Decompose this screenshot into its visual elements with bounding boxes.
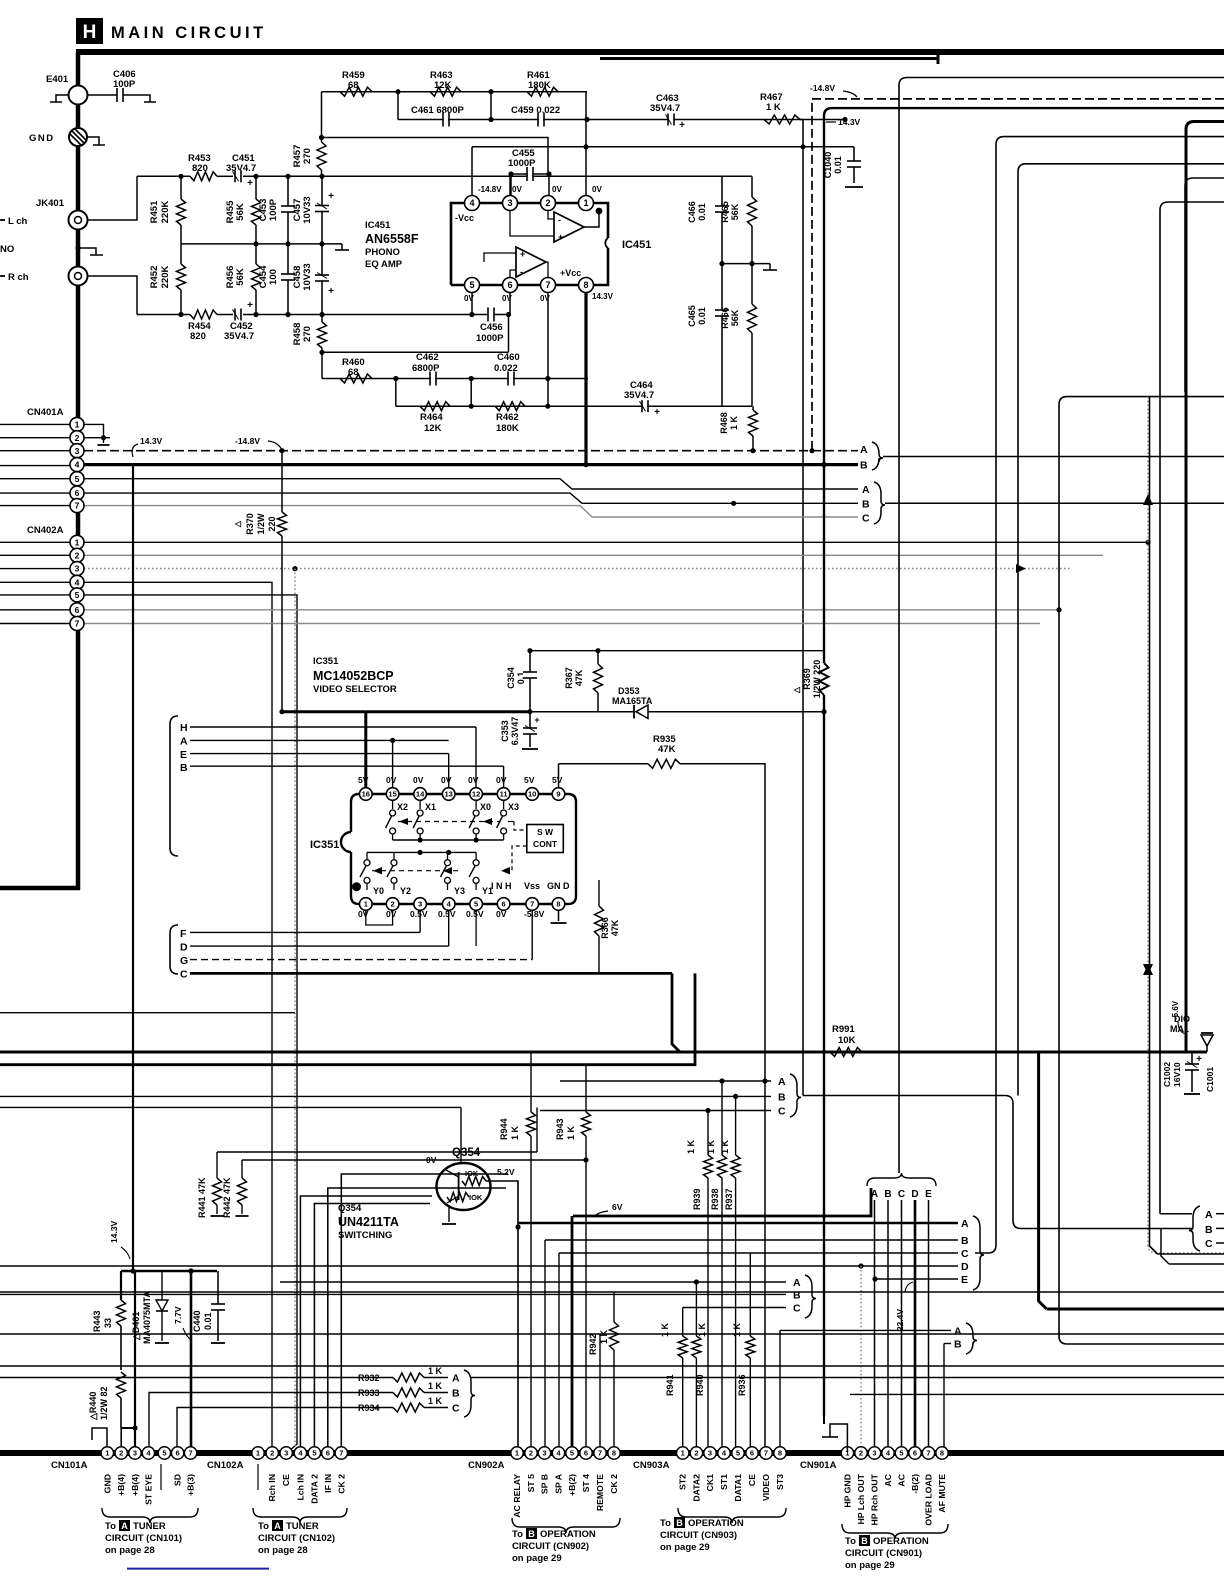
svg-text:0V: 0V: [464, 294, 474, 303]
svg-text:1 K: 1 K: [510, 1125, 520, 1140]
svg-text:1: 1: [105, 1449, 109, 1458]
pin CN102A-2: [266, 1447, 278, 1459]
wire pairB: [944, 1343, 951, 1345]
pin CN402A-5: [70, 588, 84, 602]
pin IC451-6: [509, 285, 511, 315]
pin CN901A-1: [841, 1447, 853, 1459]
svg-text:0V: 0V: [386, 775, 397, 785]
svg-text:7: 7: [545, 280, 550, 290]
wire brace apex up: [898, 1164, 900, 1173]
svg-text:7: 7: [764, 1449, 768, 1458]
pin CN903A-3: [704, 1447, 716, 1459]
svg-text:on page 28: on page 28: [105, 1545, 155, 1556]
wire SW CONT dashed in: [508, 821, 514, 823]
svg-text:R936: R936: [737, 1374, 747, 1396]
wire y1095 corner: [803, 1096, 1192, 1229]
pin CN901A-5: [895, 1447, 907, 1459]
svg-text:NO: NO: [0, 244, 14, 255]
pin CN903A-6: [746, 1447, 758, 1459]
pin IC451-3: [509, 174, 511, 203]
wire feedback row 4: [396, 405, 752, 407]
svg-text:1: 1: [515, 1449, 519, 1458]
jack JK401 L ch: [69, 211, 88, 230]
wire E line: [190, 753, 449, 755]
svg-text:10V33: 10V33: [302, 196, 313, 223]
svg-text:6: 6: [750, 1449, 754, 1458]
wire left trunk: [76, 52, 81, 890]
svg-text:3: 3: [507, 198, 512, 208]
svg-text:6: 6: [75, 488, 80, 498]
svg-text:C456: C456: [480, 322, 503, 333]
svg-text:14.3V: 14.3V: [109, 1220, 119, 1243]
wire CN402A pin1 bus: [84, 541, 1148, 543]
pin CN902A-6: [580, 1447, 592, 1459]
pin CN402A-3: [70, 562, 84, 576]
wire R441 rail: [217, 1151, 537, 1153]
arrow on x1148 upper: [1143, 494, 1153, 505]
wire feedback row 1: [322, 91, 588, 93]
wire Q354 collector line: [0, 1106, 461, 1108]
wire pin1 pin2 bottom tie: [366, 910, 393, 925]
svg-text:0V: 0V: [540, 294, 550, 303]
wire top border segment: [600, 57, 938, 60]
svg-text:R944: R944: [499, 1118, 509, 1140]
svg-text:DATA2: DATA2: [691, 1474, 701, 1502]
pin CN402A-6: [70, 603, 84, 617]
wire trio2 B: [0, 1293, 786, 1295]
svg-text:+: +: [558, 232, 563, 242]
wire 5V top rail: [530, 650, 824, 652]
terminal GND: [69, 128, 87, 146]
pin CN102A-7: [335, 1447, 347, 1459]
svg-text:D353: D353: [618, 686, 640, 696]
pin CN901A-3: [868, 1447, 880, 1459]
wire L row: [137, 175, 190, 177]
svg-text:IC451: IC451: [622, 239, 651, 251]
wire mid row: [181, 243, 342, 245]
svg-text:8: 8: [612, 1449, 616, 1458]
svg-text:A: A: [954, 1326, 962, 1338]
pin CN401A-2: [84, 437, 110, 439]
wire CN401A pin6 bus: [84, 493, 858, 503]
svg-text:10: 10: [528, 790, 536, 799]
wire C456 to row352: [508, 315, 510, 353]
svg-text:C: C: [898, 1189, 905, 1200]
svg-text:0V: 0V: [502, 294, 512, 303]
svg-text:JK401: JK401: [36, 198, 65, 209]
brace ABCDE up: [867, 1173, 936, 1186]
svg-text:7: 7: [598, 1449, 602, 1458]
pin IC351-5: [470, 898, 483, 911]
pin IC451-2: [541, 196, 556, 211]
svg-text:A: A: [862, 484, 870, 496]
svg-text:1: 1: [256, 1449, 260, 1458]
bracket ABC mid: [874, 482, 885, 524]
svg-text:on page 29: on page 29: [845, 1560, 895, 1571]
wire 14.3V rail right: [824, 108, 1224, 663]
svg-text:R369: R369: [802, 668, 812, 690]
pin CN101A-2: [115, 1447, 127, 1459]
svg-text:220: 220: [267, 516, 277, 531]
svg-text:0.01: 0.01: [697, 203, 707, 221]
pin CN902A-2: [525, 1447, 537, 1459]
svg-text:6V: 6V: [612, 1202, 623, 1212]
svg-text:R933: R933: [358, 1388, 380, 1398]
svg-text:PHONO: PHONO: [365, 247, 400, 258]
svg-text:D: D: [911, 1189, 918, 1200]
svg-text:0V: 0V: [441, 775, 452, 785]
svg-text:+: +: [679, 120, 685, 131]
svg-text:3: 3: [418, 900, 422, 909]
box SW CONT: [527, 825, 564, 853]
wire R ch to bottom row: [88, 276, 138, 315]
svg-text:G: G: [180, 955, 188, 967]
pin CN902A-7: [594, 1447, 606, 1459]
wire opamp A inputs: [510, 211, 554, 236]
brace CN102A: [253, 1508, 347, 1523]
svg-text:X3: X3: [508, 802, 519, 812]
switch contact: [392, 800, 394, 809]
svg-text:IOK: IOK: [469, 1193, 483, 1202]
svg-text:180K: 180K: [496, 423, 519, 434]
pin IC351-11: [497, 788, 510, 801]
svg-text:A: A: [778, 1076, 786, 1088]
svg-text:OPERATION: OPERATION: [873, 1536, 929, 1547]
wire IC351 pin8 ground: [558, 910, 560, 921]
wire opamp A output: [584, 213, 599, 227]
svg-text:C353: C353: [500, 720, 510, 742]
wire stack A thick: [518, 1222, 958, 1225]
svg-text:8: 8: [556, 900, 560, 909]
svg-text:DATA 2: DATA 2: [309, 1474, 319, 1504]
svg-text:GND: GND: [102, 1474, 112, 1493]
wire CN901A pin1 hook: [830, 1424, 847, 1452]
pin IC351-9: [552, 788, 565, 801]
pin CN903A-1: [677, 1447, 689, 1459]
svg-text:A: A: [180, 736, 188, 748]
svg-text:1: 1: [75, 419, 80, 429]
svg-text:C: C: [793, 1303, 801, 1315]
bracket ABC 781: [790, 1074, 801, 1117]
svg-text:14.3V: 14.3V: [838, 117, 861, 127]
label CN102A pin1 bar: [257, 1464, 259, 1490]
svg-text:C461 6800P: C461 6800P: [411, 105, 464, 116]
svg-text:R938: R938: [710, 1188, 720, 1210]
wire pin8 14.3V thick: [584, 285, 587, 466]
wire F line: [190, 931, 420, 933]
pin CN902A-1: [511, 1447, 523, 1459]
svg-text:R466: R466: [720, 307, 730, 329]
wire R934 drop: [177, 1408, 330, 1453]
label CN101A pin5 bar: [160, 1464, 162, 1490]
wire corner x1149: [1150, 397, 1158, 1254]
wire pairA: [780, 1329, 951, 1331]
pin IC351-8: [552, 898, 565, 911]
node PHONO junction: [75, 245, 80, 250]
pin IC451-7: [547, 285, 549, 406]
svg-text:C460: C460: [497, 352, 520, 363]
svg-text:R941: R941: [665, 1374, 675, 1396]
svg-text:4: 4: [75, 577, 80, 587]
svg-text:B: B: [860, 460, 868, 472]
svg-text:To: To: [660, 1518, 671, 1529]
wire 14.3V thick bus: [84, 463, 858, 466]
switch contact lower: [393, 852, 395, 859]
wire rail y1366: [0, 1365, 1224, 1367]
pin CN902A-4: [552, 1447, 564, 1459]
svg-text:CK1: CK1: [705, 1474, 715, 1492]
svg-text:7.7V: 7.7V: [173, 1306, 183, 1324]
svg-text:C: C: [180, 969, 188, 981]
svg-text:R462: R462: [496, 412, 519, 423]
svg-text:R464: R464: [420, 412, 443, 423]
svg-text:B: B: [528, 1529, 535, 1539]
wire CN402A stubs: [0, 541, 70, 543]
svg-text:0V: 0V: [496, 909, 507, 919]
bracket pair: [966, 1323, 977, 1354]
svg-text:+B(3): +B(3): [186, 1474, 196, 1496]
svg-text:IC351: IC351: [313, 656, 339, 667]
svg-text:1/2W 82: 1/2W 82: [99, 1386, 109, 1420]
svg-text:1 K: 1 K: [428, 1381, 443, 1391]
wire corner x1185: [1185, 178, 1224, 392]
pin IC351-12: [470, 788, 483, 801]
wire D line: [190, 945, 449, 947]
wire SW CONT dashed out: [503, 846, 527, 871]
svg-text:H: H: [180, 722, 188, 734]
svg-text:R939: R939: [692, 1188, 702, 1210]
pin CN402A-4: [70, 575, 84, 589]
pin CN101A-7: [184, 1447, 196, 1459]
svg-text:2: 2: [391, 900, 395, 909]
svg-text:E: E: [180, 749, 187, 761]
svg-text:220K: 220K: [160, 266, 171, 289]
wire A5 out: [1216, 1213, 1224, 1215]
svg-text:R942: R942: [588, 1333, 598, 1355]
svg-text:14.3V: 14.3V: [592, 292, 614, 301]
svg-text:ST2: ST2: [678, 1474, 688, 1490]
pin IC351-13: [442, 788, 455, 801]
svg-text:C354: C354: [506, 667, 516, 689]
svg-text:UN4211TA: UN4211TA: [338, 1215, 399, 1229]
svg-text:10V33: 10V33: [302, 263, 313, 290]
wire ABCDE drops: [874, 1200, 876, 1452]
svg-text:ST 4: ST 4: [581, 1474, 591, 1493]
wire B line: [190, 765, 504, 767]
svg-text:7: 7: [339, 1449, 343, 1458]
bracket trio3: [464, 1370, 475, 1417]
svg-text:B: B: [961, 1235, 969, 1247]
svg-text:1: 1: [583, 198, 588, 208]
wire pairB vertical: [943, 1344, 945, 1453]
svg-text:3: 3: [872, 1449, 876, 1458]
wire C5 out: [1216, 1242, 1224, 1244]
svg-text:0V: 0V: [358, 909, 369, 919]
rule bottom blue: [127, 1568, 269, 1570]
svg-text:14: 14: [416, 790, 425, 799]
wire HP Lch gray: [860, 1266, 862, 1452]
svg-text:0V: 0V: [552, 185, 562, 194]
svg-text:GN D: GN D: [547, 881, 570, 891]
svg-text:5V: 5V: [358, 775, 369, 785]
bracket FDGC: [170, 925, 178, 974]
svg-text:TUNER: TUNER: [133, 1521, 166, 1532]
wire CN402A pin3 dotted bus: [84, 568, 1072, 570]
pin CN902A-8: [608, 1447, 620, 1459]
pin CN101A-3: [129, 1447, 141, 1459]
svg-text:SP A: SP A: [554, 1473, 564, 1494]
svg-text:HP Rch OUT: HP Rch OUT: [870, 1473, 880, 1525]
svg-text:8: 8: [583, 280, 588, 290]
svg-text:35V4.7: 35V4.7: [224, 331, 254, 342]
svg-text:6: 6: [507, 280, 512, 290]
svg-text:56K: 56K: [235, 203, 246, 221]
svg-text:1 K: 1 K: [766, 102, 781, 113]
svg-text:4: 4: [469, 198, 474, 208]
svg-text:2: 2: [75, 550, 80, 560]
svg-text:C: C: [961, 1248, 969, 1260]
wire CN402A pin5 bus: [84, 595, 297, 1452]
switch contact lower: [366, 852, 368, 859]
wire opamp B input +: [484, 253, 516, 262]
svg-text:B: B: [1205, 1224, 1213, 1236]
pin CN902A-5: [566, 1447, 578, 1459]
bracket AB top: [872, 442, 883, 470]
wire thick bus A path: [672, 973, 680, 1052]
svg-text:-B(2): -B(2): [910, 1474, 920, 1494]
svg-text:CN101A: CN101A: [51, 1460, 88, 1471]
wire thick bus B path: [0, 1063, 687, 1066]
svg-text:1 K: 1 K: [428, 1396, 443, 1406]
wire stack E: [875, 1278, 958, 1280]
wire second row y137: [322, 138, 549, 175]
svg-text:5: 5: [469, 280, 474, 290]
wire GND hook: [87, 137, 99, 145]
wire trio A line: [560, 1080, 771, 1082]
svg-text:R943: R943: [555, 1118, 565, 1140]
svg-text:ST1: ST1: [719, 1474, 729, 1490]
svg-text:13: 13: [445, 790, 453, 799]
svg-text:6: 6: [584, 1449, 588, 1458]
svg-text:CN901A: CN901A: [800, 1460, 837, 1471]
pin CN903A-2: [690, 1447, 702, 1459]
svg-text:7: 7: [926, 1449, 930, 1458]
pin IC451-8: [579, 278, 594, 293]
svg-text:VIDEO SELECTOR: VIDEO SELECTOR: [313, 684, 397, 695]
wire R440 to pin2: [121, 1427, 135, 1429]
svg-text:12K: 12K: [424, 423, 442, 434]
svg-text:1000P: 1000P: [476, 333, 504, 344]
svg-text:47K: 47K: [610, 919, 620, 936]
svg-text:CN401A: CN401A: [27, 407, 64, 418]
svg-text:E401: E401: [46, 74, 69, 85]
op-amp IC451 B triangle: [516, 247, 546, 277]
svg-text:CN902A: CN902A: [468, 1460, 505, 1471]
svg-text:5: 5: [312, 1449, 316, 1458]
pin CN901A-2: [855, 1447, 867, 1459]
wire y396 corner x1059: [1059, 397, 1224, 1344]
svg-text:0V: 0V: [386, 909, 397, 919]
svg-text:-: -: [558, 215, 561, 225]
wire decouple mid bar: [722, 263, 770, 265]
wire CN102A pin7 riser: [341, 1174, 508, 1452]
svg-text:7: 7: [75, 501, 80, 511]
wire R467 to rail: [800, 119, 803, 121]
wire PHONO hook: [78, 248, 96, 255]
svg-text:0V: 0V: [496, 775, 507, 785]
switch contact: [419, 800, 421, 809]
svg-text:1/2W: 1/2W: [256, 513, 266, 535]
svg-text:CE: CE: [747, 1474, 757, 1486]
svg-text:IC351: IC351: [310, 839, 339, 851]
svg-text:B: B: [452, 1388, 460, 1400]
wire R933 drop: [149, 1393, 300, 1453]
wire CN401A pin7 bus: [84, 506, 858, 517]
svg-text:R442 47K: R442 47K: [222, 1177, 232, 1218]
svg-text:C462: C462: [416, 352, 439, 363]
op-amp IC451 body: [451, 203, 608, 285]
svg-text:35V4.7: 35V4.7: [624, 390, 654, 401]
wire corner x1018: [1018, 164, 1224, 1096]
svg-text:C465: C465: [687, 305, 697, 327]
svg-text:5: 5: [162, 1449, 166, 1458]
wire R442 rail: [242, 1159, 586, 1161]
wire pin1 to pin2 tie: [84, 424, 104, 437]
wire trio2 A: [280, 1281, 786, 1283]
svg-text:6.3V47: 6.3V47: [510, 717, 520, 746]
wire CN101A pin2 tail: [120, 1428, 122, 1452]
svg-text:0.5V: 0.5V: [466, 909, 484, 919]
wire stack D: [0, 1265, 958, 1267]
svg-text:5: 5: [736, 1449, 740, 1458]
svg-text:IC451: IC451: [365, 220, 391, 231]
svg-text:H: H: [83, 22, 97, 43]
svg-text:AC: AC: [897, 1473, 907, 1486]
svg-text:+B(4): +B(4): [116, 1474, 126, 1496]
svg-text:R991: R991: [832, 1024, 855, 1035]
pin IC451-5: [471, 285, 473, 315]
svg-text:1 K: 1 K: [697, 1322, 707, 1337]
svg-text:A: A: [274, 1521, 281, 1531]
svg-text:1: 1: [681, 1449, 685, 1458]
wire opamp B output: [546, 262, 548, 277]
svg-text:HP GND: HP GND: [842, 1474, 852, 1508]
pin CN401A-4: [70, 458, 84, 472]
wire dotted vertical x1148: [1147, 397, 1149, 1245]
svg-text:R451: R451: [149, 200, 160, 223]
wire CN402A pin6 bus: [84, 609, 1059, 611]
pin IC351-16: [360, 788, 373, 801]
svg-text:C1002: C1002: [1162, 1062, 1172, 1087]
svg-text:R ch: R ch: [8, 272, 29, 283]
pin CN401A-1: [70, 417, 84, 431]
svg-text:7: 7: [75, 619, 80, 629]
svg-text:-14.8V: -14.8V: [810, 83, 835, 93]
svg-text:56K: 56K: [730, 203, 740, 220]
svg-text:A: A: [1205, 1209, 1213, 1221]
svg-text:GND: GND: [29, 133, 55, 144]
wire C line thick: [190, 972, 672, 975]
pin CN402A-7: [70, 617, 84, 631]
pin CN903A-7: [760, 1447, 772, 1459]
svg-text:X2: X2: [397, 802, 408, 812]
pin IC351-3: [414, 898, 427, 911]
svg-text:R441 47K: R441 47K: [197, 1177, 207, 1218]
svg-text:C: C: [778, 1106, 786, 1118]
svg-text:3: 3: [708, 1449, 712, 1458]
wire C455 row: [511, 173, 549, 175]
svg-text:11: 11: [500, 790, 508, 799]
